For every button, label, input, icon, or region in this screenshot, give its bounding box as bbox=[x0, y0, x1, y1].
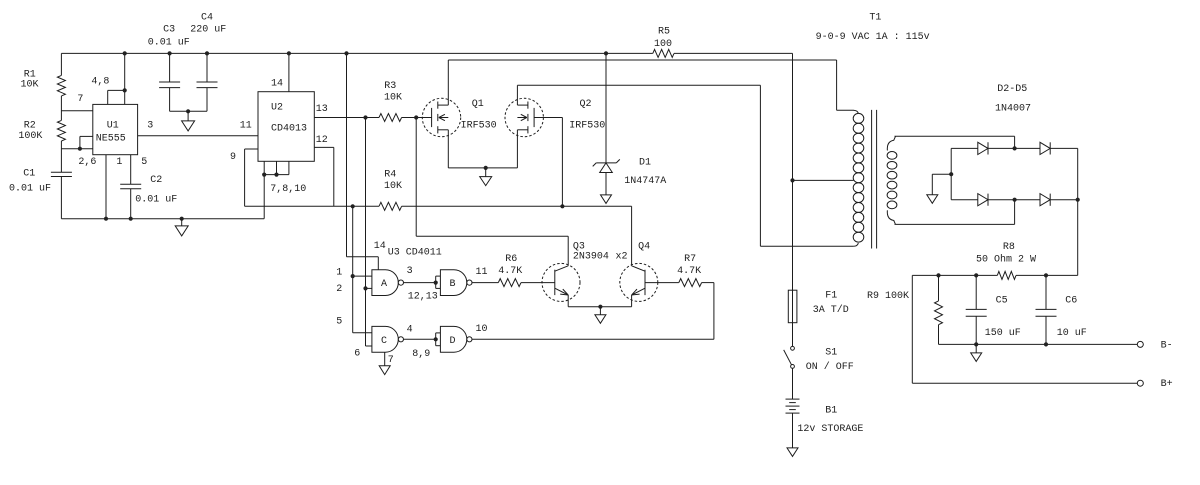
junction: gate B inputs bbox=[434, 281, 438, 285]
svg-text:14: 14 bbox=[271, 79, 283, 90]
capacitor C3 bbox=[169, 53, 171, 82]
transistor Q2 IRF530 bbox=[505, 98, 543, 136]
wire: gate D input stub bbox=[435, 333, 437, 346]
wire: bridge right vertical to R8 row bbox=[1077, 148, 1079, 275]
svg-text:R4: R4 bbox=[384, 169, 396, 180]
junction: Q2 gate node bbox=[560, 204, 564, 208]
diode D3 bbox=[1040, 142, 1050, 154]
svg-text:C1: C1 bbox=[23, 168, 35, 179]
svg-text:R9 100K: R9 100K bbox=[867, 291, 909, 302]
wire: gate C ground pin 7 bbox=[384, 352, 386, 366]
wire: U1 pin3 to U2 pin11 bbox=[138, 135, 258, 137]
transistor Q1 IRF530 bbox=[422, 98, 460, 136]
svg-text:1: 1 bbox=[116, 157, 122, 168]
svg-text:Q1: Q1 bbox=[472, 99, 484, 110]
resistor R1 bbox=[57, 75, 65, 96]
junction: R9 top bbox=[936, 273, 940, 277]
wire: battery to gnd bbox=[792, 413, 794, 448]
junction: rail at C3 bbox=[168, 51, 172, 55]
svg-text:R6: R6 bbox=[505, 254, 517, 265]
svg-text:11: 11 bbox=[240, 121, 252, 132]
svg-text:220 uF: 220 uF bbox=[190, 24, 226, 35]
junction: rail at C4 bbox=[205, 51, 209, 55]
svg-text:B-: B- bbox=[1161, 341, 1173, 352]
svg-text:10 uF: 10 uF bbox=[1057, 328, 1087, 339]
svg-text:4: 4 bbox=[407, 325, 413, 336]
wire: +12V top rail (left half) bbox=[61, 52, 652, 54]
wire: Q2 source bbox=[516, 130, 518, 168]
diode D2 bbox=[978, 142, 988, 154]
wire: R6 to Q3 base bbox=[521, 282, 555, 284]
svg-text:100: 100 bbox=[654, 39, 672, 50]
wire: C3-C4 ground bus bbox=[170, 110, 207, 112]
capacitor C1 bbox=[51, 171, 72, 173]
svg-text:B1: B1 bbox=[825, 406, 837, 417]
inductor T1 secondary bbox=[887, 152, 897, 160]
transistor Q3 2N3904 bbox=[542, 263, 580, 301]
resistor R3 bbox=[379, 114, 402, 122]
svg-text:13: 13 bbox=[316, 104, 328, 115]
junction: center tap feed bbox=[790, 178, 794, 182]
svg-text:5: 5 bbox=[141, 157, 147, 168]
svg-text:8,9: 8,9 bbox=[412, 349, 430, 360]
ground (C5) bbox=[975, 344, 977, 353]
junction: bottom row AC bbox=[1013, 198, 1017, 202]
svg-text:7,8,10: 7,8,10 bbox=[270, 184, 306, 195]
svg-text:S1: S1 bbox=[825, 348, 837, 359]
wire: +12V top rail (right of R5) bbox=[674, 52, 793, 54]
junction: pin4,8 tee bbox=[123, 88, 127, 92]
battery B1 bbox=[786, 398, 800, 400]
resistor R9 bbox=[938, 275, 940, 301]
svg-text:0.01 uF: 0.01 uF bbox=[148, 37, 190, 48]
ground (Q3/Q4) bbox=[599, 307, 601, 315]
ground (D1) bbox=[601, 195, 612, 204]
ground (bridge) bbox=[927, 195, 938, 204]
svg-text:2: 2 bbox=[336, 284, 342, 295]
svg-text:IRF530: IRF530 bbox=[461, 120, 497, 131]
svg-text:12,13: 12,13 bbox=[408, 292, 438, 303]
junction: gate A input 2 bbox=[363, 286, 367, 290]
junction: rail at U3 pin14 bbox=[344, 51, 348, 55]
svg-text:10: 10 bbox=[476, 324, 488, 335]
gate U3C bbox=[372, 326, 398, 352]
ground (bottom rail) bbox=[181, 219, 183, 226]
junction: 2,6 bbox=[78, 147, 82, 151]
svg-text:150 uF: 150 uF bbox=[985, 328, 1021, 339]
svg-text:R2: R2 bbox=[24, 120, 36, 131]
svg-text:0.01 uF: 0.01 uF bbox=[9, 184, 51, 195]
junction: C5 top bbox=[974, 273, 978, 277]
svg-text:T1: T1 bbox=[869, 12, 881, 23]
svg-text:U1: U1 bbox=[107, 121, 119, 132]
wire: ground rail bottom bbox=[61, 218, 264, 220]
resistor R6 bbox=[498, 279, 521, 287]
switch S1 bbox=[791, 346, 795, 350]
ic U2 CD4013 box bbox=[258, 92, 314, 162]
junction: bridge negative bbox=[949, 172, 953, 176]
junction: bridge positive bbox=[1076, 198, 1080, 202]
svg-text:Q4: Q4 bbox=[638, 242, 650, 253]
junction: cap gnd bus bbox=[186, 109, 190, 113]
wire: Q2 gate node to Q4 collector bbox=[631, 206, 633, 265]
capacitor C6 bbox=[1045, 275, 1047, 309]
wire: U3 input vertical A (from R4 line) bbox=[352, 206, 354, 332]
capacitor C4 bbox=[206, 53, 208, 82]
svg-text:C2: C2 bbox=[150, 175, 162, 186]
inductor T1 primary bbox=[853, 113, 864, 123]
svg-text:A: A bbox=[381, 279, 387, 290]
svg-text:IRF530: IRF530 bbox=[569, 120, 605, 131]
svg-text:C3: C3 bbox=[163, 24, 175, 35]
svg-text:4,8: 4,8 bbox=[91, 77, 109, 88]
ground (C3/C4) bbox=[187, 111, 189, 121]
svg-text:9: 9 bbox=[230, 152, 236, 163]
svg-text:4.7K: 4.7K bbox=[677, 266, 701, 277]
svg-text:C6: C6 bbox=[1065, 296, 1077, 307]
svg-text:1: 1 bbox=[336, 267, 342, 278]
wire: bridge top row bbox=[951, 147, 978, 149]
svg-text:R3: R3 bbox=[384, 81, 396, 92]
gate U3A bbox=[372, 270, 398, 296]
junction: C6 bottom bbox=[1044, 342, 1048, 346]
junction: R4 line to U3 input bbox=[351, 204, 355, 208]
svg-text:3: 3 bbox=[407, 266, 413, 277]
svg-text:2,6: 2,6 bbox=[78, 157, 96, 168]
svg-text:1N4007: 1N4007 bbox=[995, 104, 1031, 115]
svg-text:7: 7 bbox=[77, 94, 83, 105]
wire: U1 pin5 via C2 to gnd bbox=[130, 155, 132, 185]
wire: U1 pins 4,8 to rail bbox=[107, 90, 109, 104]
svg-text:CD4013: CD4013 bbox=[271, 123, 307, 134]
junction: pin1 gnd bbox=[104, 217, 108, 221]
wire: Q1 source bbox=[447, 130, 449, 168]
diode D5 bbox=[1040, 194, 1050, 206]
junction: C5 bottom bbox=[974, 342, 978, 346]
wire: R7 to Q4 base bbox=[645, 282, 679, 284]
wire: gate B input stub bbox=[435, 276, 437, 288]
capacitor C2 bbox=[120, 183, 141, 185]
svg-text:7: 7 bbox=[388, 355, 394, 366]
wire: gate B out to R6 bbox=[472, 282, 498, 284]
svg-text:NE555: NE555 bbox=[96, 133, 126, 144]
svg-text:1N4747A: 1N4747A bbox=[624, 176, 666, 187]
resistor R2 bbox=[57, 120, 65, 141]
transistor Q4 2N3904 bbox=[620, 263, 658, 301]
wire: U2 pin12 drop bbox=[314, 146, 334, 148]
svg-text:0.01 uF: 0.01 uF bbox=[135, 195, 177, 206]
svg-text:10K: 10K bbox=[384, 181, 402, 192]
wire: source ground bus bbox=[448, 167, 517, 169]
wire: B+ row bbox=[911, 275, 913, 383]
wire: U3 pin14 supply from rail bbox=[346, 53, 348, 256]
junction: rail at U2 pin14 bbox=[287, 51, 291, 55]
svg-text:B+: B+ bbox=[1161, 379, 1173, 390]
svg-text:3A T/D: 3A T/D bbox=[813, 304, 849, 316]
junction: gate D inputs bbox=[434, 337, 438, 341]
svg-text:6: 6 bbox=[354, 349, 360, 360]
ground (battery) bbox=[787, 448, 798, 457]
gate U3B bbox=[440, 270, 466, 296]
junction: C2 gnd bbox=[129, 217, 133, 221]
svg-text:10K: 10K bbox=[384, 93, 402, 104]
junction: C6 top bbox=[1044, 273, 1048, 277]
wire: U1 pin7 to divider bbox=[61, 110, 92, 112]
junction: pin13 to U3 bbox=[363, 115, 367, 119]
diode D4 bbox=[978, 194, 988, 206]
svg-text:D1: D1 bbox=[639, 158, 651, 169]
wire: Q2 drain to transformer bbox=[516, 85, 518, 105]
svg-text:5: 5 bbox=[336, 316, 342, 327]
resistor R8 bbox=[997, 271, 1016, 279]
wire: secondary top to bridge bbox=[895, 135, 1015, 137]
ground (Q1/Q2 sources) bbox=[485, 168, 487, 177]
wire: gate D out to R7 bbox=[472, 338, 714, 340]
svg-text:Q2: Q2 bbox=[580, 99, 592, 110]
wire: R8 row bbox=[912, 274, 997, 276]
svg-text:U2: U2 bbox=[271, 103, 283, 114]
resistor R4 bbox=[379, 202, 402, 210]
svg-text:D2-D5: D2-D5 bbox=[997, 84, 1027, 95]
svg-text:U3 CD4011: U3 CD4011 bbox=[388, 248, 442, 259]
wire: switch to battery bbox=[792, 368, 794, 399]
wire: U2 pins 7,8,10 to ground bbox=[263, 161, 265, 174]
fuse F1 bbox=[788, 290, 797, 323]
wire: primary center tap bbox=[793, 179, 854, 181]
svg-text:100K: 100K bbox=[18, 131, 42, 142]
junction: Q3/Q4 emitters bbox=[598, 305, 602, 309]
svg-text:R7: R7 bbox=[684, 254, 696, 265]
svg-text:ON / OFF: ON / OFF bbox=[806, 361, 854, 373]
wire: secondary bottom to bridge bbox=[895, 223, 1015, 225]
svg-text:D: D bbox=[450, 336, 456, 347]
wire: bridge bottom row bbox=[951, 199, 978, 201]
svg-text:2N3904: 2N3904 bbox=[573, 252, 609, 263]
svg-text:x2: x2 bbox=[616, 252, 628, 263]
wire: Q2 gate lead bbox=[534, 117, 562, 119]
diode D1 zener 1N4747A bbox=[596, 162, 616, 164]
svg-text:C4: C4 bbox=[201, 12, 213, 23]
svg-text:R5: R5 bbox=[658, 27, 670, 38]
junction: Q1 gate node bbox=[414, 115, 418, 119]
svg-text:12: 12 bbox=[316, 135, 328, 146]
terminal B- bbox=[1137, 341, 1143, 347]
svg-text:4.7K: 4.7K bbox=[498, 266, 522, 277]
svg-text:3: 3 bbox=[147, 121, 153, 132]
svg-text:50 Ohm 2 W: 50 Ohm 2 W bbox=[976, 253, 1036, 265]
gate U3D bbox=[440, 326, 466, 352]
wire: gate A out to gate B bbox=[404, 282, 436, 284]
wire: U1 pin1 to ground rail bbox=[105, 155, 107, 219]
junction: gnd rail bbox=[180, 217, 184, 221]
svg-text:12v STORAGE: 12v STORAGE bbox=[797, 424, 863, 435]
junction: rail at U1 supply bbox=[123, 51, 127, 55]
resistor R5 bbox=[653, 49, 674, 57]
svg-text:B: B bbox=[450, 279, 456, 290]
wire: Q1 drain to transformer bbox=[447, 60, 449, 105]
wire: B- row bbox=[939, 343, 1138, 345]
wire: U3 input vertical B (from pin13 line) bbox=[365, 118, 367, 347]
junction: pin 7 bus bbox=[262, 173, 266, 177]
wire: Q3 emitter to gnd bus bbox=[567, 295, 569, 307]
svg-text:C: C bbox=[381, 336, 387, 347]
wire: Q4 emitter to gnd bus bbox=[631, 295, 633, 307]
junction: gate A input 1 bbox=[351, 274, 355, 278]
wire: left vertical rail bbox=[60, 53, 62, 75]
svg-text:14: 14 bbox=[374, 241, 386, 252]
wire: pin12/pin9 line through R4 to Q2 gate bbox=[245, 205, 379, 207]
svg-text:9-0-9 VAC 1A : 115v: 9-0-9 VAC 1A : 115v bbox=[816, 32, 930, 43]
junction: rail at D1 bbox=[604, 51, 608, 55]
wire: gate C out to gate D bbox=[404, 338, 436, 340]
wire: bridge left vertical bbox=[950, 148, 952, 199]
wire: U2 pin13 line to Q1 gate bbox=[314, 117, 379, 119]
svg-text:C5: C5 bbox=[996, 296, 1008, 307]
svg-text:F1: F1 bbox=[825, 291, 837, 302]
wire: battery feed vertical bbox=[792, 53, 794, 346]
wire: D1 anode to gnd bbox=[605, 173, 607, 195]
capacitor C5 bbox=[975, 275, 977, 309]
op-amp U1 NE555 box bbox=[93, 104, 138, 154]
junction: pin 8 bus bbox=[274, 173, 278, 177]
wire: D1 from rail bbox=[605, 53, 607, 162]
junction: sources bbox=[484, 166, 488, 170]
wire: U2 pin9 loop bbox=[245, 148, 258, 150]
wire: Q1 gate node to Q3 collector bbox=[415, 118, 417, 237]
terminal B+ bbox=[1137, 380, 1143, 386]
wire: U2 pin14 to rail bbox=[288, 53, 290, 91]
wire: pins 2,6 net bbox=[61, 148, 92, 150]
svg-text:R8: R8 bbox=[1003, 242, 1015, 253]
transformer core bbox=[871, 110, 873, 249]
svg-text:11: 11 bbox=[476, 267, 488, 278]
resistor R7 bbox=[679, 279, 702, 287]
wire: bridge neg to gnd bbox=[932, 173, 951, 175]
svg-text:10K: 10K bbox=[21, 79, 39, 90]
junction: top row AC bbox=[1013, 146, 1017, 150]
